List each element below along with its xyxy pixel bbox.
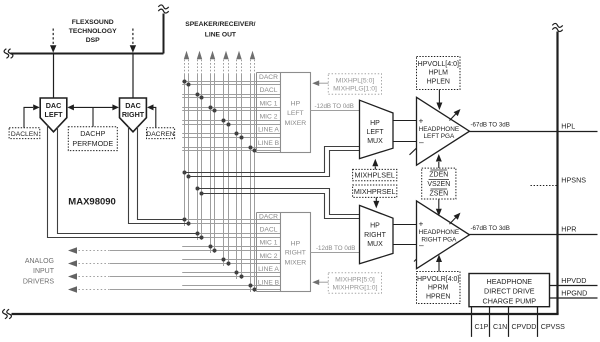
wire - bus to DAC RIGHT input [132, 54, 134, 99]
svg-text:VS2EN: VS2EN [427, 181, 450, 188]
control DACHP PERFMODE dashed box [68, 127, 117, 151]
svg-text:HPRM: HPRM [428, 285, 449, 292]
control HPVOLR[4:0] HPRM HPREN dashed box [417, 272, 461, 304]
svg-text:MIC 1: MIC 1 [260, 240, 278, 247]
wire - DACREN to DAC RIGHT with arrowhead [147, 104, 156, 127]
wire - DACL bypass from crossbar to HP RIGHT MUX (upper) [196, 187, 360, 215]
junction dots MIC 2 / right mixer [222, 258, 231, 266]
svg-text:–: – [419, 137, 424, 147]
svg-text:HPR: HPR [561, 225, 576, 234]
svg-text:HPLM: HPLM [429, 70, 449, 77]
pin CPVDD [509, 307, 537, 337]
svg-text:HPVOLR[4:0]: HPVOLR[4:0] [417, 276, 459, 283]
label ANALOG INPUT DRIVERS [23, 258, 55, 286]
gray arrow MIXHPR box to HP RIGHT MIXER [312, 279, 328, 285]
svg-text:LEFT PGA: LEFT PGA [424, 133, 456, 140]
HP RIGHT MIXER box [281, 213, 311, 292]
wire - bus to DAC LEFT input [53, 54, 55, 99]
svg-text:+: + [419, 219, 424, 229]
svg-text:DACHP: DACHP [80, 129, 105, 138]
MAX98090 chip border right edge with break squiggle [552, 23, 562, 314]
svg-text:LINE B: LINE B [258, 279, 280, 286]
HP LEFT MUX [360, 100, 394, 158]
svg-text:HPVDD: HPVDD [561, 276, 586, 285]
junction dots LINE A / left mixer [235, 132, 244, 140]
wire - DACR bypass from crossbar to HP LEFT MUX (upper) [183, 147, 360, 175]
control HPVOLL[4:0] HPLM HPLEN dashed box [417, 57, 461, 90]
wire - HP RIGHT MIXER input row MIC 1 [182, 246, 280, 248]
svg-text:CHARGE PUMP: CHARGE PUMP [483, 296, 537, 305]
svg-text:HP: HP [291, 240, 301, 247]
junction dots LINE A / right mixer [235, 271, 244, 279]
svg-text:TECHNOLOGY: TECHNOLOGY [69, 28, 117, 35]
svg-text:LINE A: LINE A [258, 127, 279, 134]
svg-text:RIGHT: RIGHT [285, 250, 306, 257]
svg-text:RIGHT PGA: RIGHT PGA [421, 236, 457, 243]
svg-text:DSP: DSP [86, 37, 100, 44]
svg-text:HEADPHONE: HEADPHONE [419, 126, 459, 133]
svg-text:PERFMODE: PERFMODE [72, 139, 113, 148]
wire - HP LEFT MIXER input row DACR [182, 82, 280, 85]
svg-text:MUX: MUX [367, 138, 383, 145]
analog input driver arrow LINE A [68, 273, 281, 279]
svg-text:-67dB TO 3dB: -67dB TO 3dB [471, 225, 510, 232]
svg-text:MIC 1: MIC 1 [260, 100, 278, 107]
MAX98090 chip border bottom edge with break squiggle [3, 309, 559, 319]
svg-text:HPLEN: HPLEN [427, 79, 450, 86]
wire - HP LEFT MIXER input row LINE A [182, 134, 280, 138]
junction dots MIC 2 / left mixer [222, 119, 231, 127]
svg-text:INPUT: INPUT [33, 268, 55, 275]
analog input driver arrow MIC 1 [68, 247, 281, 253]
svg-text:MIXHPRSEL: MIXHPRSEL [354, 187, 396, 196]
wire - DAC RIGHT output routing to HP RIGHT MIXER DACR row (outer) [138, 126, 185, 220]
svg-text:+: + [419, 115, 424, 125]
wire - HP RIGHT MUX to HEADPHONE RIGHT PGA (+) [393, 224, 417, 226]
svg-text:LINE A: LINE A [258, 266, 279, 273]
svg-text:RIGHT: RIGHT [364, 232, 387, 239]
control DACREN dashed box [146, 128, 174, 139]
svg-text:FLEXSOUND: FLEXSOUND [72, 19, 114, 26]
wire - HP LEFT MIXER input row LINE B [182, 148, 280, 151]
svg-text:LINE OUT: LINE OUT [205, 32, 237, 39]
svg-text:ANALOG: ANALOG [25, 258, 54, 265]
svg-text:HPGND: HPGND [561, 288, 587, 297]
HP RIGHT MUX [360, 205, 394, 263]
junction dots DACL / right mixer [196, 232, 204, 240]
wire - DACR vertical pair to speaker/receiver/line out with up arrowhead [184, 51, 189, 226]
svg-text:DACLEN: DACLEN [11, 131, 38, 138]
wire - DACL bypass to HP RIGHT MUX (lower) [200, 192, 360, 219]
svg-text:HEADPHONE: HEADPHONE [419, 229, 459, 236]
arrow MIXHPLSEL to HP LEFT MUX [372, 159, 378, 170]
arrow ZDEN box up to left PGA [436, 154, 442, 168]
svg-text:HP: HP [291, 101, 301, 108]
control MIXHPLSEL dashed box [353, 169, 397, 180]
svg-text:DRIVERS: DRIVERS [23, 279, 54, 286]
svg-text:ZDEN: ZDEN [429, 172, 448, 179]
slash mark on right PGA - input [414, 254, 421, 261]
junction dots DACR / left mixer [183, 80, 191, 87]
svg-text:HPVOLL[4:0]: HPVOLL[4:0] [418, 61, 459, 68]
wire - HP RIGHT MIXER input row LINE B [182, 285, 280, 287]
svg-text:CPVSS: CPVSS [541, 323, 565, 331]
svg-text:MIXHPR[5:0]: MIXHPR[5:0] [335, 276, 375, 283]
wire - HP LEFT MIXER input row DACL [182, 95, 280, 98]
svg-text:CPVDD: CPVDD [512, 323, 537, 331]
svg-text:C1N: C1N [493, 323, 507, 331]
analog input driver arrow MIC 2 [68, 260, 281, 266]
wire - HP RIGHT MIXER output to HP RIGHT MUX, -12dB TO 0dB [311, 245, 360, 252]
slash mark on left PGA - input [410, 147, 418, 155]
op-amp HEADPHONE LEFT PGA [417, 97, 470, 165]
wire - charge pump HPGND output [550, 288, 598, 298]
wire - right PGA output to HPR, -67dB TO 3dB [470, 225, 598, 235]
svg-text:HPSNS: HPSNS [561, 175, 586, 184]
svg-text:LEFT: LEFT [366, 129, 384, 136]
svg-text:DACL: DACL [260, 87, 278, 94]
HP LEFT MIXER box [281, 73, 311, 153]
wire - HP LEFT MIXER input row MIC 2 [182, 121, 280, 125]
pin CPVSS [538, 307, 566, 337]
dashed arrow from DSP into bus (left) [50, 29, 56, 53]
svg-text:HP: HP [370, 222, 380, 229]
svg-text:DACR: DACR [259, 213, 278, 220]
control MIXHPL[5:0] MIXHPLG[1:0] gray dashed box [328, 74, 381, 95]
svg-text:DIRECT DRIVE: DIRECT DRIVE [484, 287, 535, 296]
wire - MIC1 vertical pair to speaker/receiver/line out with up arrowhead [210, 51, 215, 253]
svg-text:MIXHPLG[1:0]: MIXHPLG[1:0] [333, 86, 377, 93]
svg-text:MIC 2: MIC 2 [260, 253, 278, 260]
wire - HP RIGHT MIXER input row LINE A [182, 272, 280, 274]
wire - DAC RIGHT output routing (inner) [129, 127, 189, 224]
wire - DACR bypass to HP LEFT MUX (lower) [187, 151, 360, 179]
analog input driver arrow LINE B [68, 286, 281, 292]
svg-text:-12dB TO 0dB: -12dB TO 0dB [316, 245, 355, 252]
wire - DACR row B continuation [189, 223, 281, 225]
wire - LINEB vertical pair to speaker/receiver/line out with up arrowhead [250, 51, 255, 292]
junction dots MIC 1 / right mixer [209, 245, 217, 253]
wire - HP LEFT MUX to HEADPHONE LEFT PGA (+) [393, 120, 417, 122]
svg-text:SPEAKER/RECEIVER/: SPEAKER/RECEIVER/ [185, 21, 255, 28]
svg-text:DACL: DACL [260, 227, 278, 234]
gain arrow on right PGA [450, 213, 461, 225]
DAC LEFT block [40, 98, 67, 132]
wire - DSP bus horizontal with break squiggle at left edge [4, 49, 163, 59]
wire - charge pump HPVDD output [550, 276, 598, 286]
pin HPSNS with dotted stub [531, 175, 587, 185]
wire - DAC LEFT output routing to HP RIGHT MIXER DACL row (inner) [58, 127, 198, 234]
control MIXHPR[5:0] MIXHPRG[1:0] gray dashed box [328, 273, 381, 294]
wire - HP LEFT MIXER output to HP LEFT MUX, -12dB TO 0dB [311, 103, 360, 110]
wire - LINEA vertical pair to speaker/receiver/line out with up arrowhead [236, 51, 241, 279]
wire - left PGA output to HPL, -67dB TO 3dB [470, 122, 598, 132]
wire - DACL row B continuation [202, 237, 281, 239]
DAC RIGHT block [120, 98, 147, 132]
HP LEFT MIXER input label column [257, 73, 281, 153]
svg-text:MIC 2: MIC 2 [260, 114, 278, 121]
svg-text:-12dB TO 0dB: -12dB TO 0dB [315, 103, 354, 110]
svg-text:MIXER: MIXER [285, 120, 307, 127]
arrow MIXHPRSEL to HP RIGHT MUX [373, 197, 379, 208]
junction dots DACL / left mixer [196, 93, 204, 100]
wire - DACL vertical pair to speaker/receiver/line out with up arrowhead [197, 51, 202, 240]
HP RIGHT MIXER input label column [257, 213, 281, 292]
junction dots MIC 1 / left mixer [209, 106, 217, 113]
svg-text:HEADPHONE: HEADPHONE [487, 277, 533, 286]
control ZDEN VS2EN ZSEN dashed box [422, 168, 456, 199]
label SPEAKER/RECEIVER/ LINE OUT [185, 21, 255, 39]
svg-text:DACR: DACR [259, 74, 278, 81]
svg-text:MIXHPRG[1:0]: MIXHPRG[1:0] [333, 285, 378, 292]
wire - HP RIGHT MUX to HEADPHONE RIGHT PGA (-) [393, 244, 417, 246]
wire - DACLEN to DAC LEFT with arrowhead [24, 104, 40, 127]
svg-text:HP: HP [370, 120, 380, 127]
svg-text:MAX98090: MAX98090 [68, 197, 116, 208]
svg-text:–: – [419, 240, 424, 250]
wire - HP LEFT MUX to HEADPHONE LEFT PGA (-) [393, 141, 417, 143]
svg-text:C1P: C1P [475, 323, 489, 331]
junction dots LINE B / left mixer [249, 146, 257, 153]
gray arrow MIXHPL box to HP LEFT MIXER [312, 80, 328, 86]
svg-text:ZSEN: ZSEN [429, 191, 448, 198]
svg-text:HPREN: HPREN [426, 294, 451, 301]
HEADPHONE DIRECT DRIVE CHARGE PUMP box [469, 274, 550, 307]
arrow HPVOLR box up to right PGA [436, 255, 442, 272]
svg-text:-67dB TO 3dB: -67dB TO 3dB [471, 122, 510, 129]
gain arrow on left PGA [450, 109, 461, 121]
svg-text:MUX: MUX [367, 241, 383, 248]
control DACLEN dashed box [9, 128, 40, 139]
wire - DAC LEFT output routing (outer) [48, 125, 202, 238]
svg-text:MIXER: MIXER [285, 260, 307, 267]
svg-text:HPL: HPL [561, 122, 575, 131]
svg-text:LEFT: LEFT [45, 110, 64, 119]
wire - HP LEFT MIXER input row MIC 1 [182, 108, 280, 111]
op-amp HEADPHONE RIGHT PGA [417, 201, 470, 269]
arrow ZDEN box down to right PGA [436, 199, 442, 216]
svg-text:DAC: DAC [125, 101, 141, 110]
label FLEXSOUND TECHNOLOGY DSP [69, 19, 117, 44]
svg-text:DACREN: DACREN [146, 131, 174, 138]
wire - HP RIGHT MIXER input row MIC 2 [182, 259, 280, 261]
svg-text:DAC: DAC [46, 101, 62, 110]
svg-text:LINE B: LINE B [258, 140, 280, 147]
junction dots LINE B / right mixer [249, 284, 257, 292]
dashed arrow from DSP into bus (right) [130, 29, 136, 53]
svg-text:MIXHPLSEL: MIXHPLSEL [355, 171, 395, 180]
junction dots DACR / right mixer [183, 218, 191, 226]
wire - DSP bus vertical riser to top with break squiggle [158, 5, 168, 54]
svg-text:LEFT: LEFT [287, 110, 304, 117]
svg-text:MIXHPL[5:0]: MIXHPL[5:0] [336, 78, 375, 85]
control MIXHPRSEL dashed box [353, 185, 397, 197]
pin C1P [472, 307, 489, 337]
pin C1N [490, 307, 508, 337]
svg-text:RIGHT: RIGHT [122, 110, 145, 119]
wire - DACHP PERFMODE to both DACs with arrowheads [67, 104, 119, 126]
arrow HPVOLL box to left PGA [436, 90, 442, 111]
wire - DACL row continuation to right mixer [198, 233, 281, 235]
wire - DACR row continuation to right mixer [185, 219, 281, 221]
wire - MIC2 vertical pair to speaker/receiver/line out with up arrowhead [223, 51, 228, 266]
